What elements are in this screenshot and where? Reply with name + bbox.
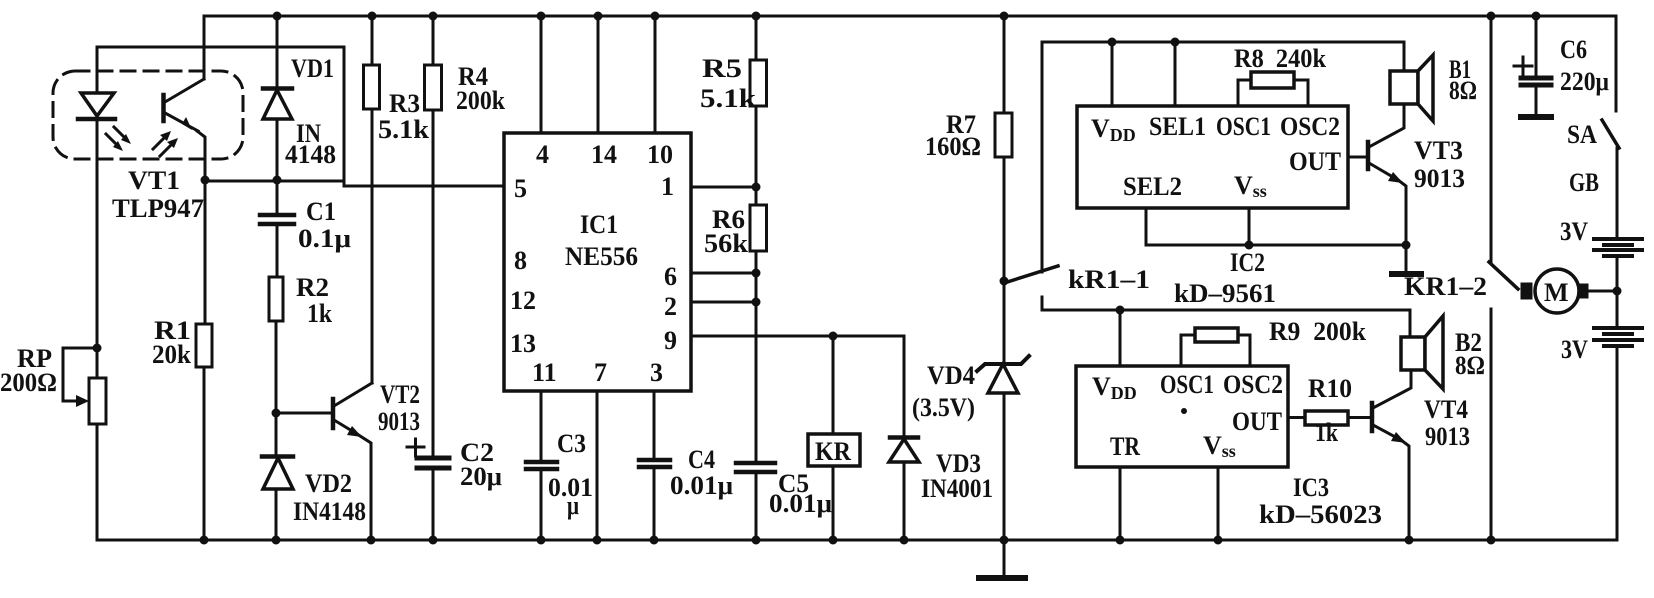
wire bottom ground rail (98, 539, 1617, 542)
svg-text:200Ω: 200Ω (0, 368, 57, 397)
wire pin1 to R5R6 node (691, 186, 756, 189)
wire kR1-1 lower contact bracket (1041, 297, 1044, 310)
capacitor C3 (526, 460, 557, 465)
svg-text:NE556: NE556 (565, 242, 638, 271)
potentiometer RP hook and wiper arrow (63, 348, 97, 401)
LED of VT1 (81, 93, 114, 116)
svg-text:220μ: 220μ (1560, 67, 1609, 96)
wire VD1 to emitter node (276, 119, 279, 180)
svg-text:7: 7 (594, 358, 607, 387)
wire C5 to ground (755, 472, 758, 540)
wire KR to ground (832, 466, 835, 540)
wire emitter node to VD1 node (205, 180, 344, 183)
wire SA to battery GB (1616, 148, 1619, 237)
wire VD4 to ground rail (1003, 393, 1006, 540)
ground symbol (1003, 540, 1006, 576)
wire R4 down to C2 (432, 110, 435, 455)
wire pin11 down to C3 (540, 391, 543, 460)
wire emitter node down to R1 (204, 180, 207, 324)
svg-text:IN4001: IN4001 (921, 474, 993, 503)
resistor R5 (750, 60, 767, 106)
motor M brushes (1522, 284, 1531, 298)
wire battery to motor tap (1616, 256, 1619, 326)
svg-text:1k: 1k (307, 299, 332, 328)
node VT1 emitter junction (201, 176, 210, 185)
svg-text:8: 8 (514, 246, 527, 275)
svg-text:R2: R2 (296, 273, 329, 302)
capacitor C1 (260, 213, 294, 218)
capacitor C6 polarity plus (1514, 65, 1532, 68)
switch kR1-1 blade (1004, 266, 1058, 283)
switch SA blade (1602, 120, 1619, 148)
op IC3 kD-56023 box (1076, 366, 1288, 467)
wire R5 to pin1 node (755, 106, 758, 187)
wire pin9 run to VD3 (691, 335, 904, 338)
wire collector riser to R3 (371, 109, 374, 383)
svg-text:C4: C4 (688, 445, 715, 474)
svg-text:SEL1: SEL1 (1149, 112, 1206, 141)
wire C4 to ground (653, 467, 656, 540)
wire LED anode drop (96, 47, 99, 93)
resistor R4 (425, 65, 442, 110)
svg-text:0.01μ: 0.01μ (769, 489, 832, 518)
wire pin14 to rail (597, 16, 600, 133)
wire collector riser to top rail (203, 16, 206, 79)
wire pin9 corner down to VD3 (903, 336, 906, 436)
svg-text:VT1: VT1 (128, 166, 180, 195)
wire battery to ground rail (1616, 346, 1619, 540)
svg-text:3: 3 (650, 358, 663, 387)
wire C1 to R2 (276, 224, 279, 277)
svg-text:13: 13 (510, 329, 536, 358)
svg-text:56k: 56k (704, 229, 749, 258)
svg-text:3V: 3V (1560, 217, 1588, 246)
wire pin10 to rail (654, 16, 657, 133)
wire KR1-2 lower throw to ground rail (1490, 309, 1493, 540)
transistor VT4 base bar (1370, 403, 1375, 431)
wire IC3 OUT to R10 (1288, 416, 1305, 419)
speaker B2 (1409, 310, 1412, 337)
svg-text:200k: 200k (456, 86, 505, 115)
capacitor C6 feed (1535, 16, 1538, 75)
svg-text:KR1–2: KR1–2 (1404, 272, 1487, 301)
wire down to VD4 (1003, 281, 1006, 364)
wire R9 right to OSC2 (1238, 335, 1250, 366)
optocoupler VT1 dashed package (53, 71, 243, 159)
diode VD1 (263, 86, 292, 91)
svg-text:SA: SA (1567, 120, 1597, 149)
switch KR1-2 blade (1489, 262, 1518, 289)
svg-text:4: 4 (536, 140, 549, 169)
svg-text:5: 5 (514, 174, 527, 203)
wire pin6 (691, 272, 756, 275)
resistor R1 (196, 324, 212, 367)
wire IC2 SEL1 pin (1174, 42, 1177, 106)
wire R10 to VT4 base (1348, 416, 1370, 419)
svg-text:SEL2: SEL2 (1123, 172, 1182, 201)
transistor VT3 collector (1369, 104, 1404, 147)
wire R2 to base node (275, 321, 278, 413)
resistor R8 (1251, 72, 1294, 88)
wire R8 right to OSC2 (1294, 80, 1308, 106)
svg-text:9: 9 (664, 326, 677, 355)
wire RP stubs (96, 348, 99, 378)
svg-text:9013: 9013 (378, 407, 420, 436)
svg-text:8Ω: 8Ω (1455, 351, 1485, 380)
transistor VT2 collector (334, 383, 372, 406)
svg-text:OUT: OUT (1232, 407, 1282, 436)
capacitor C2 polarity plus (407, 446, 424, 449)
svg-text:KR: KR (815, 437, 851, 466)
transistor VT2 emitter with arrow (334, 420, 357, 434)
wire IC2 Vss pin down (1248, 208, 1251, 245)
capacitor C6 electrolytic (1521, 76, 1551, 81)
svg-text:C3: C3 (557, 429, 586, 458)
speaker B1 (1403, 42, 1406, 71)
wire IC2 OUT to VT3 base (1348, 156, 1366, 159)
resistor R3 (364, 65, 380, 109)
diode VD2 (262, 454, 293, 459)
op IC1 NE556 box (504, 133, 691, 391)
capacitor C5 (736, 461, 775, 466)
svg-text:IC1: IC1 (580, 210, 618, 239)
light emission arrows (106, 127, 178, 156)
wire R7 from rail (1003, 16, 1006, 113)
svg-text:TLP947: TLP947 (112, 194, 204, 223)
svg-text:160Ω: 160Ω (925, 132, 981, 161)
phototransistor base bar (161, 95, 166, 121)
potentiometer RP body (89, 378, 106, 424)
svg-text:1: 1 (661, 172, 674, 201)
wire pin7 to ground (596, 391, 599, 540)
transistor VT2 base bar (331, 399, 336, 428)
svg-text:kD–9561: kD–9561 (1174, 279, 1276, 308)
svg-text:9013: 9013 (1425, 422, 1470, 451)
wire R7 to switch node (1003, 157, 1006, 281)
wire IC3 TR pin to ground (1119, 467, 1122, 540)
svg-text:VD4: VD4 (927, 361, 975, 390)
wire top supply rail (204, 15, 1616, 18)
svg-text:IC3: IC3 (1293, 473, 1329, 502)
zener diode VD4 (977, 356, 1029, 371)
svg-text:0.1μ: 0.1μ (298, 224, 351, 253)
svg-text:kD–56023: kD–56023 (1259, 500, 1382, 529)
stray dot in IC3 (1181, 408, 1187, 414)
svg-text:TR: TR (1110, 432, 1140, 461)
phototransistor collector (165, 79, 204, 102)
transistor VT3 emitter with arrow (1369, 163, 1398, 180)
svg-text:R9 200k: R9 200k (1269, 317, 1367, 346)
svg-text:kR1–1: kR1–1 (1068, 265, 1150, 294)
wire KR coil feed (832, 336, 835, 434)
svg-text:IC2: IC2 (1230, 248, 1265, 277)
wire IC2 VDD rail (1042, 41, 1404, 44)
capacitor C2 electrolytic (417, 456, 449, 461)
resistor R4 top wire (432, 16, 435, 65)
wire VD2 to ground rail (275, 489, 278, 540)
svg-text:VT2: VT2 (380, 380, 420, 409)
wire C2 to ground (432, 468, 435, 540)
svg-text:14: 14 (591, 140, 617, 169)
svg-text:VT3: VT3 (1414, 136, 1463, 165)
svg-text:C6: C6 (1560, 35, 1587, 64)
ground bar below VT3 emitter (1405, 245, 1408, 272)
wire R3 top to rail (371, 16, 374, 65)
wire R6 chain down to C5 (755, 251, 758, 462)
resistor R10 (1305, 411, 1348, 425)
wire KR1-2 feed from top rail (1490, 16, 1493, 262)
wire LED anode rail (97, 46, 344, 49)
battery lower cells (1594, 326, 1642, 330)
svg-text:C1: C1 (306, 197, 336, 226)
svg-text:IN4148: IN4148 (293, 497, 366, 526)
svg-text:10: 10 (647, 140, 673, 169)
wire C3 to ground (540, 469, 543, 540)
ground bar below C6 (1535, 85, 1538, 115)
svg-text:VT4: VT4 (1424, 395, 1468, 424)
svg-text:OSC1: OSC1 (1216, 112, 1271, 141)
wire pin3 down to C4 (653, 391, 656, 459)
battery GB upper cells (1594, 237, 1642, 241)
svg-text:GB: GB (1569, 168, 1599, 197)
wire SEL2 Vss emitter bus (1146, 244, 1406, 247)
svg-text:3V: 3V (1561, 335, 1588, 364)
svg-text:8Ω: 8Ω (1449, 76, 1477, 105)
op IC2 kD-9561 box (1077, 106, 1348, 208)
svg-text:VD1: VD1 (291, 54, 334, 83)
wire base node down to VD2 (275, 413, 278, 455)
svg-text:0.01μ: 0.01μ (670, 471, 733, 500)
wire base node to VT2 base (276, 412, 330, 415)
wire R9 left to OSC1 (1181, 335, 1195, 366)
transistor VT4 collector (1373, 370, 1411, 408)
svg-text:(3.5V): (3.5V) (912, 393, 975, 422)
resistor R6 (755, 187, 758, 205)
resistor R2 (269, 277, 283, 321)
wire pin4 to rail (540, 16, 543, 133)
wire IC2 SEL2 pin down (1145, 208, 1148, 245)
relay coil KR box (808, 434, 860, 466)
svg-text:6: 6 (664, 262, 677, 291)
wire IC3 VDD rail (1042, 309, 1410, 312)
motor M (1535, 269, 1579, 313)
svg-text:20μ: 20μ (460, 462, 502, 491)
wire R8 left to OSC1 (1238, 80, 1251, 106)
wire pin2 (691, 301, 756, 304)
wire IC3 Vss pin to ground (1217, 467, 1220, 540)
diode VD3 (890, 435, 918, 440)
svg-text:μ: μ (567, 491, 579, 520)
svg-text:11: 11 (532, 358, 557, 387)
wire IC3 VDD pin (1119, 310, 1122, 366)
resistor R9 (1195, 328, 1238, 342)
phototransistor emitter with arrow (165, 113, 198, 131)
wire motor to battery tap (1587, 290, 1617, 293)
svg-text:1k: 1k (1315, 418, 1338, 447)
svg-text:12: 12 (510, 286, 536, 315)
wire VD3 to ground (903, 462, 906, 540)
svg-text:2: 2 (664, 292, 677, 321)
wire IC2 VDD pin (1111, 42, 1114, 106)
svg-text:4148: 4148 (285, 140, 336, 169)
transistor VT4 emitter with arrow (1373, 425, 1401, 440)
resistor R7 (995, 113, 1012, 157)
svg-text:OSC2: OSC2 (1223, 370, 1283, 399)
svg-text:OUT: OUT (1289, 147, 1341, 176)
svg-text:R10: R10 (1308, 374, 1352, 403)
wire LED cathode to RP node (96, 121, 99, 348)
svg-text:M: M (1544, 278, 1569, 307)
svg-text:R5: R5 (702, 54, 742, 83)
svg-text:OSC1: OSC1 (1160, 370, 1214, 399)
svg-text:9013: 9013 (1414, 164, 1465, 193)
wire R5 from rail (755, 16, 758, 60)
svg-text:VD2: VD2 (305, 469, 352, 498)
wire R1 to ground rail (203, 367, 206, 540)
svg-text:R8 240k: R8 240k (1234, 44, 1326, 73)
svg-text:20k: 20k (152, 340, 192, 369)
svg-text:OSC2: OSC2 (1280, 112, 1340, 141)
capacitor C4 (639, 458, 670, 463)
transistor VT3 base bar (1366, 142, 1371, 169)
svg-text:5.1k: 5.1k (700, 84, 757, 113)
svg-text:5.1k: 5.1k (378, 115, 430, 144)
wire right column top (1615, 16, 1618, 111)
svg-text:R3: R3 (389, 89, 420, 118)
wire VD1 from supply rail (273, 12, 282, 21)
wire kR1-1 upper contact drop (1041, 42, 1044, 272)
wire pin5 riser (344, 47, 504, 186)
wire VD1 node down to C1 (276, 180, 279, 213)
